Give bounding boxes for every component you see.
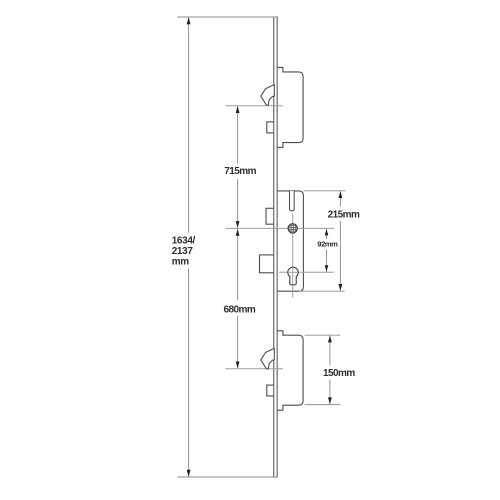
svg-text:215mm: 215mm <box>328 210 360 221</box>
svg-text:1634/: 1634/ <box>172 235 196 246</box>
svg-text:mm: mm <box>172 256 190 267</box>
svg-text:92mm: 92mm <box>317 239 338 248</box>
svg-text:150mm: 150mm <box>323 368 355 379</box>
svg-text:715mm: 715mm <box>224 166 256 177</box>
svg-text:680mm: 680mm <box>224 305 256 316</box>
svg-text:2137: 2137 <box>172 246 194 257</box>
